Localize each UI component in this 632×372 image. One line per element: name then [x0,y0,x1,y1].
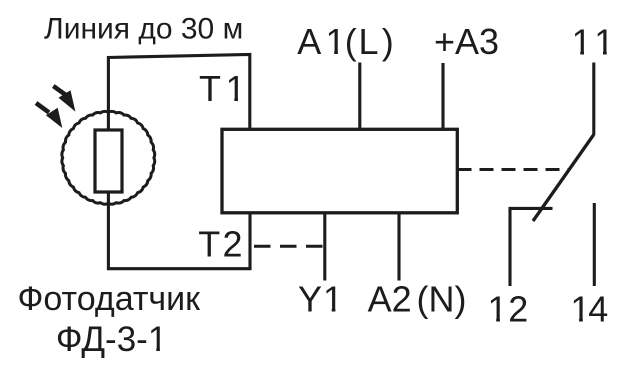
photodetector B1 circle [62,111,155,204]
svg-text:ФД-3-1: ФД-3-1 [56,320,167,359]
wire: terminal Y1 [323,213,326,281]
svg-text:2: 2 [223,223,243,264]
relay block U1 [222,129,457,213]
svg-text:Y: Y [298,279,322,320]
pin label 14 [570,288,608,329]
svg-text:4: 4 [588,288,608,329]
svg-text:): ) [382,21,394,62]
terminal label T2 [198,223,242,264]
svg-text:1: 1 [226,68,246,109]
terminal label Y1 [298,279,343,320]
svg-text:L: L [359,21,379,62]
wire: photodetector bottom to T2 terminal [108,192,250,269]
wire: contact 14 [593,203,596,286]
svg-text:1: 1 [572,22,592,63]
dashed link: relay block to switch lever [458,168,571,171]
pin label 12 [488,288,529,329]
svg-text:+А3: +А3 [434,21,499,62]
svg-text:1: 1 [323,279,343,320]
svg-text:Т: Т [199,68,221,109]
terminal label A2 (N) [368,279,467,320]
svg-text:(: ( [345,21,357,62]
masks to remove Liberation "1" serif feet (target font has footless 1) [150,51,614,352]
svg-text:2: 2 [508,288,528,329]
terminal label A1 (L) [297,21,394,62]
switch lever (changeover contact) [533,135,594,222]
photoresistor body [95,130,122,192]
svg-text:Линия до 30 м: Линия до 30 м [44,13,243,46]
svg-text:А2: А2 [368,279,412,320]
wire: terminal A2 [397,213,400,281]
svg-text:Т: Т [198,223,220,264]
svg-text:Фотодатчик: Фотодатчик [18,280,202,318]
wire: contact 11 [592,63,595,136]
wire: terminal +A3 [441,63,444,129]
svg-text:(N): (N) [417,279,467,320]
svg-text:1: 1 [326,21,346,62]
wire: contact 12 [510,208,553,286]
terminal label T1 [199,68,246,109]
wire: photodetector top to T1 terminal [108,55,249,131]
svg-text:1: 1 [488,288,508,329]
dashed link: T2 to Y1 wire [254,245,325,248]
light arrow 1 [53,86,75,112]
wire: terminal A1 [358,63,361,130]
svg-text:1: 1 [594,22,614,63]
svg-text:А: А [297,21,321,62]
light arrow 2 [36,103,62,128]
pin label 11 [572,22,615,63]
